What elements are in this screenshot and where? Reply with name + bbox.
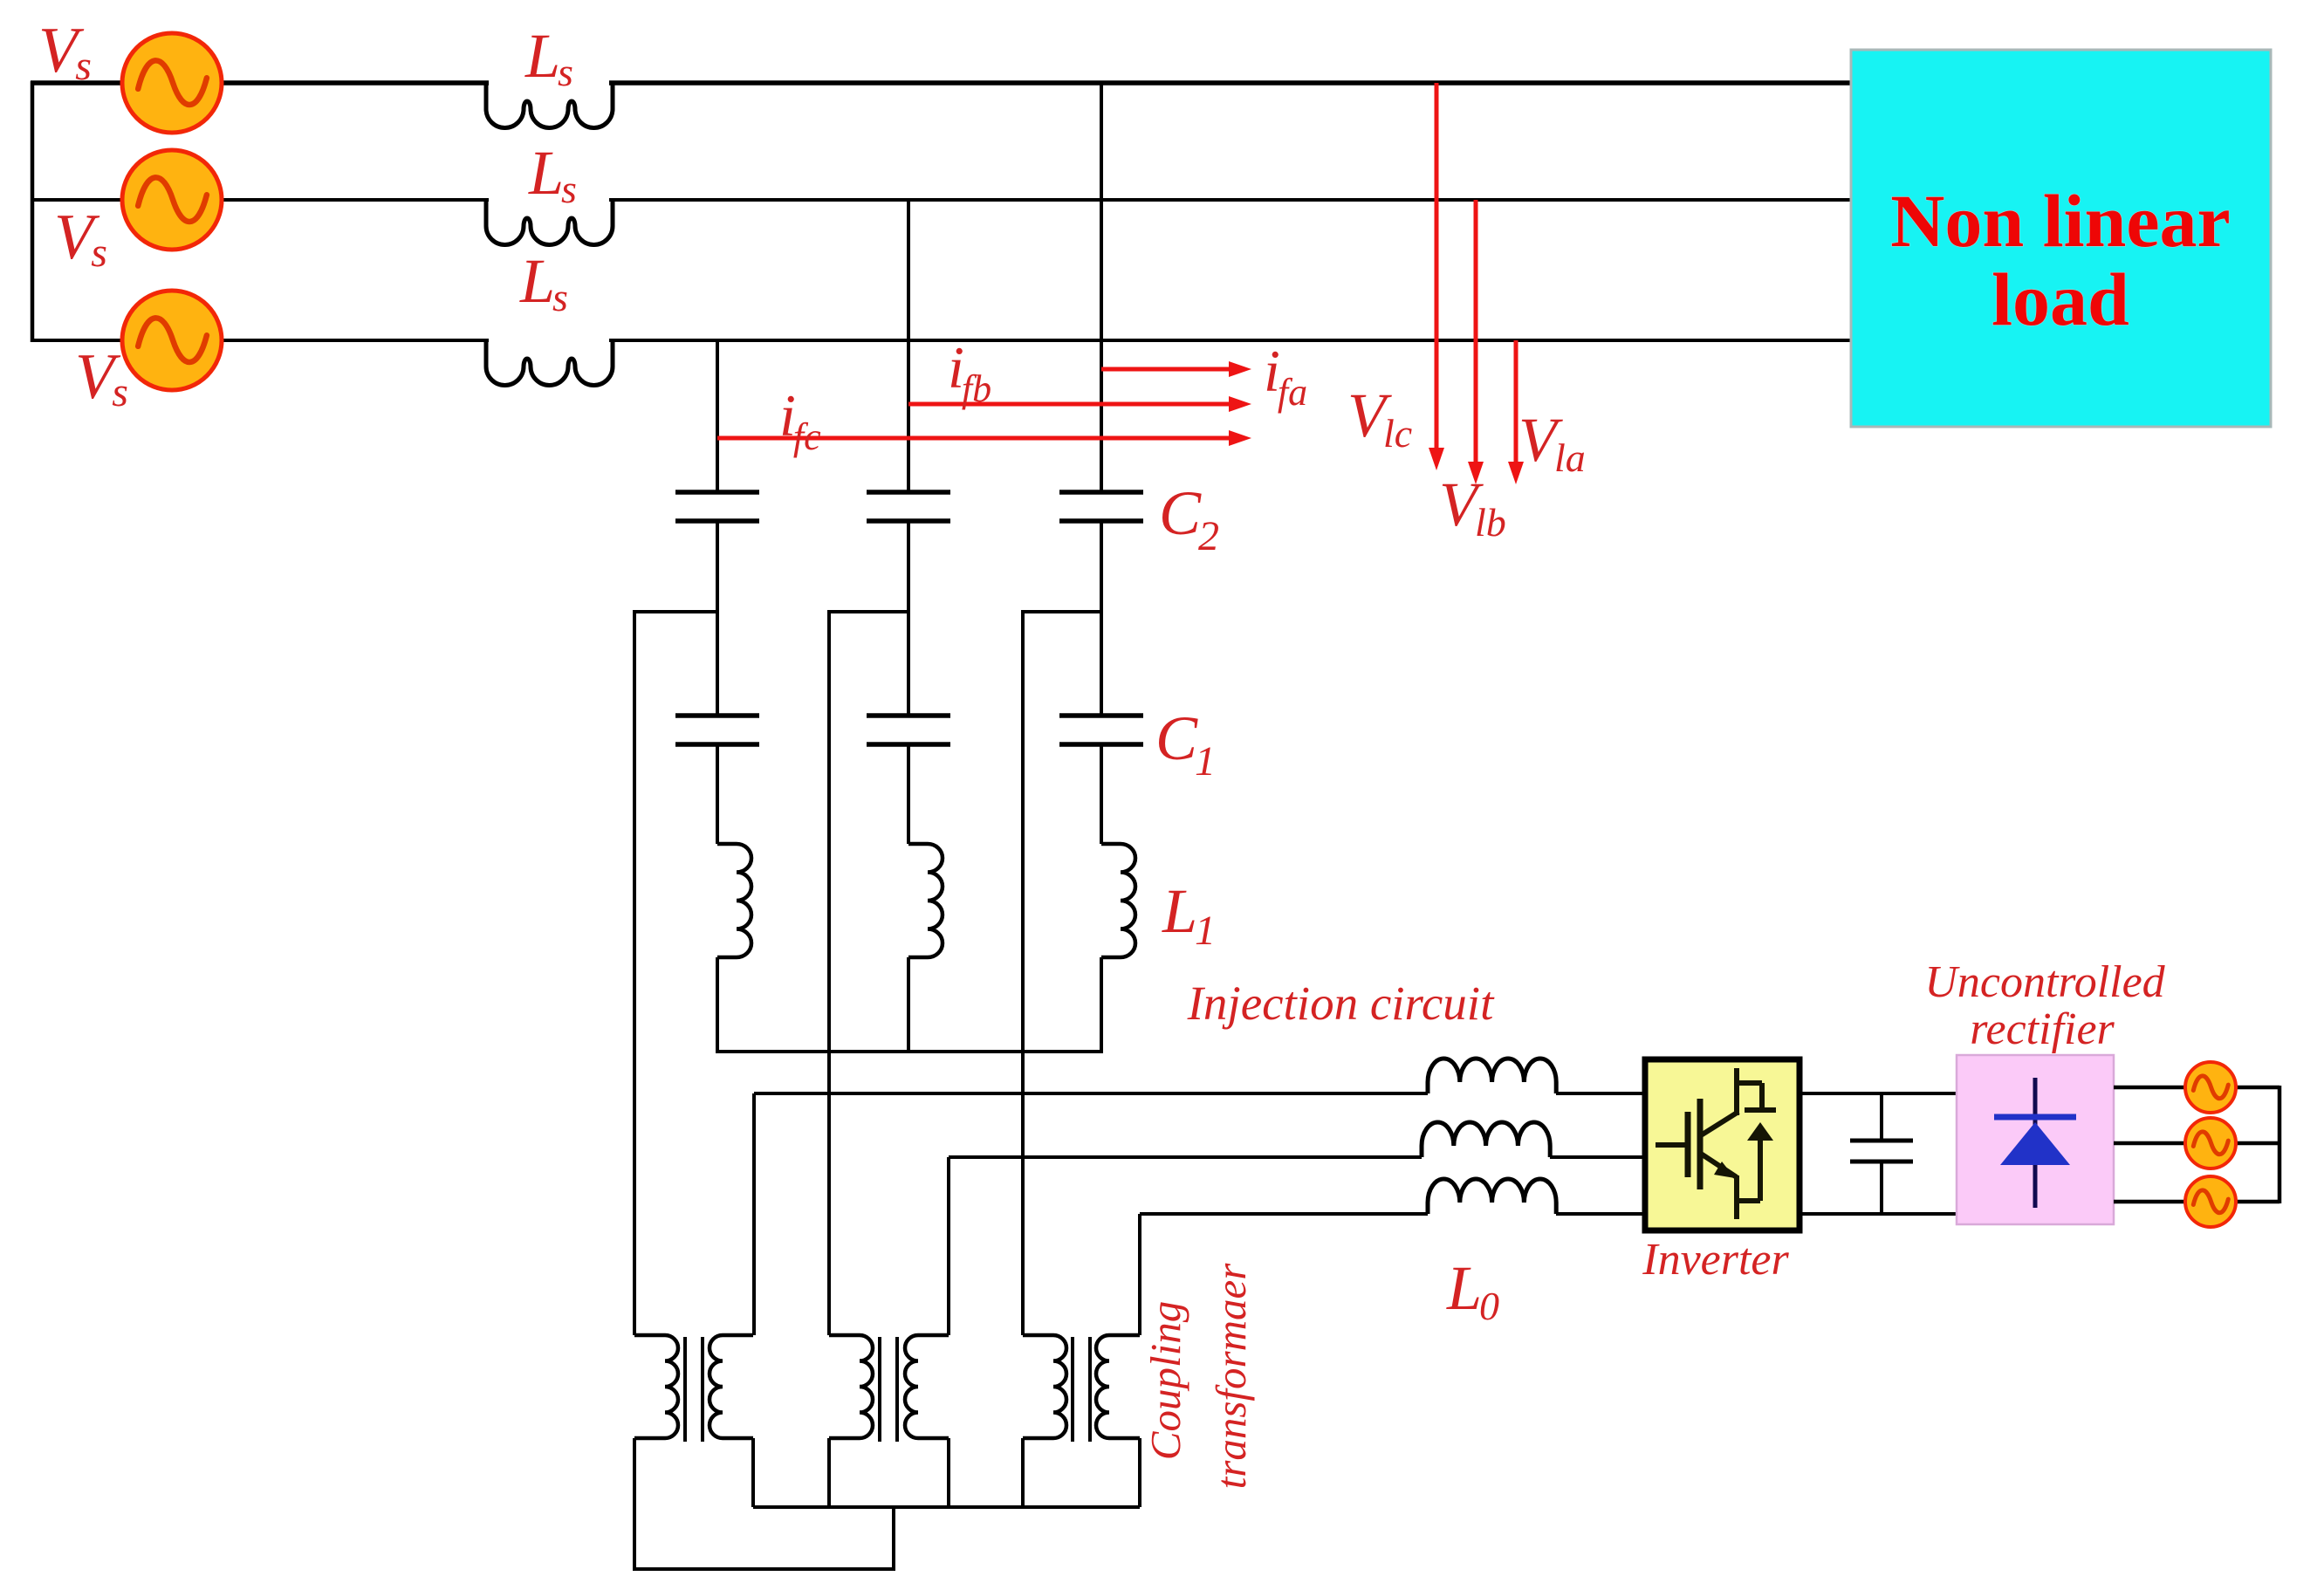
- label C1: [1155, 703, 1216, 785]
- wire phase b node to C1: [907, 612, 910, 716]
- wire phase c C1 to L1: [1100, 744, 1103, 844]
- ac source right c: [2185, 1176, 2236, 1227]
- transformer Ta core: [685, 1337, 703, 1442]
- capacitor C1 phase c: [1059, 716, 1143, 744]
- inductor L1 phase a: [717, 844, 751, 957]
- wire phase c C2 to node: [1100, 523, 1103, 612]
- wire phase b L1 to common row: [907, 957, 910, 1052]
- voltage arrow Vlc: [1429, 83, 1444, 470]
- svg-text:rectifier: rectifier: [1970, 1004, 2115, 1054]
- transformer Ta primary winding: [634, 1335, 678, 1438]
- wire common node row of L1 branches: [716, 1050, 1103, 1053]
- wire L0 b to inverter: [1550, 1155, 1645, 1159]
- svg-text:Coupling: Coupling: [1141, 1301, 1189, 1460]
- wire bus phase b from Ls to load: [609, 198, 1851, 202]
- label Ls phase c: [519, 246, 568, 319]
- label Vs phase a: [38, 15, 92, 89]
- wire phase a drop from bus to C2: [716, 340, 719, 490]
- inductor L1 phase b: [908, 844, 943, 957]
- wire left vertical bus joining the three sources: [31, 81, 35, 342]
- wire phase a node to C1: [716, 612, 719, 716]
- capacitor C1 phase b: [867, 716, 950, 744]
- wire rectifier to source a: [2114, 1086, 2279, 1090]
- wire rectifier to source b: [2114, 1141, 2279, 1146]
- svg-text:Inverter: Inverter: [1642, 1235, 1789, 1285]
- label Vla: [1518, 405, 1586, 480]
- wire L0 c to inverter: [1556, 1212, 1645, 1216]
- wire bus phase b from source to Ls: [31, 198, 489, 202]
- wire bus phase c from source to Ls: [31, 339, 489, 342]
- non linear load block: [1851, 50, 2271, 427]
- label ifc: [779, 382, 821, 458]
- wire T3 secondary to common bus: [1138, 1438, 1141, 1507]
- wire T1 secondary riser: [752, 1093, 756, 1335]
- node phase a split to transformer branch: [634, 610, 717, 613]
- svg-text:load: load: [1992, 257, 2129, 341]
- wire T2 secondary to common bus: [947, 1438, 950, 1507]
- uncontrolled rectifier block: [1957, 1055, 2114, 1224]
- svg-text:Injection circuit: Injection circuit: [1187, 977, 1495, 1030]
- wire dc link positive: [1800, 1092, 1957, 1095]
- wire dc link negative: [1800, 1212, 1957, 1216]
- wire rectifier to source c: [2114, 1200, 2279, 1204]
- transformer Tc secondary winding: [1096, 1335, 1140, 1438]
- node phase b split to transformer branch: [829, 610, 908, 613]
- wire phase a C1 to L1: [716, 744, 719, 844]
- voltage source Vs phase b: [122, 150, 222, 250]
- wire phase a C2 to node: [716, 523, 719, 612]
- wire T3 secondary riser: [1138, 1214, 1141, 1335]
- wire T2 secondary riser: [947, 1157, 950, 1335]
- wire T3 primary to common bus: [1021, 1438, 1025, 1507]
- label Vlb: [1439, 469, 1506, 545]
- svg-text:Uncontrolled: Uncontrolled: [1924, 957, 2165, 1007]
- wire T1 primary return: [634, 1438, 894, 1569]
- svg-text:Non linear: Non linear: [1890, 179, 2230, 263]
- inverter block: [1645, 1059, 1800, 1230]
- wire row from T2 secondary to L0 b: [949, 1155, 1422, 1159]
- label Vs phase b: [54, 202, 107, 276]
- wire T2 primary to common bus: [827, 1438, 831, 1507]
- transformer Tc core: [1073, 1337, 1090, 1442]
- voltage arrow Vlb: [1468, 200, 1484, 484]
- ac source right a: [2185, 1062, 2236, 1113]
- wire phase c drop from bus to C2: [1100, 83, 1103, 490]
- ac source right b: [2185, 1118, 2236, 1169]
- wire phase c L1 to common row: [1100, 957, 1103, 1052]
- current arrow ifb: [908, 396, 1251, 412]
- capacitor C2 phase c: [1059, 492, 1143, 521]
- wire phase b C1 to L1: [907, 744, 910, 844]
- capacitor C2 phase b: [867, 492, 950, 521]
- wire phase b drop from bus to C2: [907, 200, 910, 490]
- voltage arrow Vla: [1508, 340, 1524, 484]
- label inverter: [1642, 1235, 1789, 1285]
- voltage source Vs phase a: [122, 33, 222, 133]
- inductor L1 phase c: [1101, 844, 1135, 957]
- wire phase a branch down to coupling transformer primary: [633, 610, 636, 1335]
- label L1: [1162, 876, 1216, 954]
- label ifa: [1264, 338, 1307, 414]
- wire right vertical bus: [2278, 1086, 2282, 1203]
- wire phase c branch down to coupling transformer primary: [1021, 610, 1025, 1335]
- wire phase b C2 to node: [907, 523, 910, 612]
- inductor L0 c: [1428, 1179, 1556, 1214]
- wire bus phase c from Ls to load: [609, 339, 1851, 342]
- inductor Ls phase a: [486, 83, 613, 128]
- wire phase a L1 to common row: [716, 957, 719, 1052]
- label C2: [1159, 478, 1219, 559]
- inductor Ls phase b: [486, 200, 613, 245]
- label Ls phase a: [524, 21, 573, 94]
- wire phase c node to C1: [1100, 612, 1103, 716]
- wire bus phase a from Ls to load: [609, 80, 1851, 86]
- transformer Tc primary winding: [1023, 1335, 1066, 1438]
- wire row from T3 secondary to L0 c: [1140, 1212, 1428, 1216]
- label L0: [1446, 1253, 1499, 1328]
- label injection circuit: [1187, 977, 1495, 1030]
- wire T1 secondary to common bus: [751, 1438, 755, 1507]
- wire row from T1 secondary to L0 a: [754, 1092, 1428, 1095]
- wire L0 a to inverter: [1556, 1092, 1645, 1095]
- voltage source Vs phase c: [122, 291, 222, 390]
- transformer Tb primary winding: [829, 1335, 873, 1438]
- transformer Ta secondary winding: [710, 1335, 753, 1438]
- label uncontrolled rectifier: [1924, 957, 2165, 1054]
- label Vs phase c: [75, 341, 128, 415]
- capacitor dc link: [1850, 1093, 1913, 1214]
- label Ls phase b: [528, 138, 577, 211]
- capacitor C2 phase a: [675, 492, 759, 521]
- transformer Tb core: [880, 1337, 897, 1442]
- wire bus phase a from source to Ls: [31, 80, 489, 86]
- inductor L0 a: [1428, 1059, 1556, 1093]
- label Vlc: [1347, 380, 1412, 456]
- inductor Ls phase c: [486, 340, 613, 386]
- svg-text:transformaer: transformaer: [1207, 1263, 1255, 1490]
- inductor L0 b: [1422, 1122, 1550, 1157]
- transformer Tb secondary winding: [905, 1335, 949, 1438]
- node phase c split to transformer branch: [1023, 610, 1101, 613]
- current arrow ifc: [717, 430, 1251, 446]
- current arrow ifa: [1101, 361, 1251, 377]
- label coupling transformer: [1141, 1263, 1255, 1490]
- wire secondary common bus: [753, 1505, 1140, 1509]
- wire phase b branch down to coupling transformer primary: [827, 610, 831, 1335]
- label ifb: [948, 334, 991, 410]
- capacitor C1 phase a: [675, 716, 759, 744]
